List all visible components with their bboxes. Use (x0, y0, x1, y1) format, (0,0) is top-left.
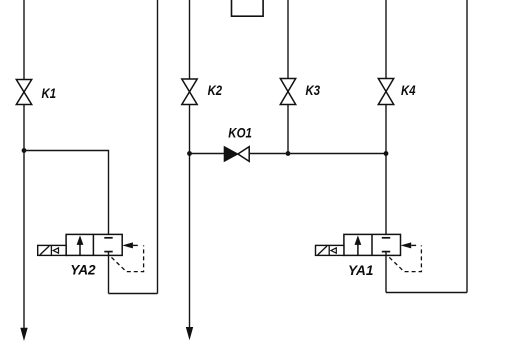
wire: K3 branch from top edge (287, 0, 289, 79)
svg-text:K1: K1 (42, 86, 57, 101)
wire: K1 branch from top edge (23, 0, 25, 80)
wire: YA2 loop right riser to top edge (157, 0, 159, 294)
solenoid valve YA1: body (two cells) (344, 234, 401, 255)
wire: K1 branch below valve to outlet (23, 105, 25, 330)
solenoid valve YA2: body (two cells) (66, 234, 122, 255)
valve K4 (378, 79, 393, 105)
wire: K4 branch from top edge (385, 0, 387, 79)
YA1 solenoid box (316, 245, 344, 255)
wire: YA1 outlet down (385, 255, 387, 292)
YA2 solenoid box (38, 245, 66, 255)
svg-text:K4: K4 (401, 83, 416, 98)
valve K2 (182, 79, 197, 105)
YA2 pilot line (dashed) (112, 245, 144, 271)
YA1 top port T-bar (382, 237, 390, 239)
junction: K4 / pilot header node (384, 151, 389, 156)
YA1 override arrow (points left into body) (401, 242, 412, 248)
valve K3 (280, 79, 295, 105)
arrow: K1 outlet (down) (20, 328, 27, 341)
svg-text:YA1: YA1 (348, 263, 374, 279)
wire: YA2 loop bottom (109, 293, 158, 295)
YA2 override arrow (points left into body) (122, 242, 133, 248)
wire: K2 branch from top edge (189, 0, 191, 79)
junction: K3 / pilot header node (286, 151, 291, 156)
svg-text:K2: K2 (208, 83, 223, 98)
arrow: K2 outlet (down) (186, 327, 193, 340)
component box at top (cut off) (232, 0, 264, 16)
junction: K1 / YA2 feed node (22, 148, 27, 153)
svg-text:YA2: YA2 (70, 263, 96, 279)
YA2 top port T-bar (104, 237, 112, 239)
wire: YA2 outlet down (108, 255, 110, 293)
wire: YA1 loop right riser to top edge (466, 0, 468, 293)
svg-text:KO1: KO1 (228, 125, 252, 141)
wire: pilot header left segment (K2 node to check valve) (190, 153, 225, 155)
YA2 bottom port T-bar (104, 251, 112, 253)
svg-text:K3: K3 (306, 83, 321, 98)
YA1 flow arrow (left cell) (357, 244, 359, 256)
valve K1 (16, 80, 31, 105)
wire: K3 branch below valve to header (287, 105, 289, 154)
wire: pilot header right segment (check valve to K4 node) (249, 153, 386, 155)
check valve KO1 (224, 147, 238, 162)
wire: K4 branch below valve to YA1 top port (385, 105, 387, 238)
junction: K2 / pilot header node (187, 151, 192, 156)
YA1 bottom port T-bar (382, 251, 390, 253)
wire: YA1 loop bottom (386, 292, 467, 294)
wire: K2 branch below valve to outlet (189, 105, 191, 329)
YA1 pilot line (dashed) (389, 245, 421, 271)
wire: YA2 feed (junction right, then down into valve top port) (24, 151, 109, 238)
YA2 flow arrow (left cell) (79, 244, 81, 256)
